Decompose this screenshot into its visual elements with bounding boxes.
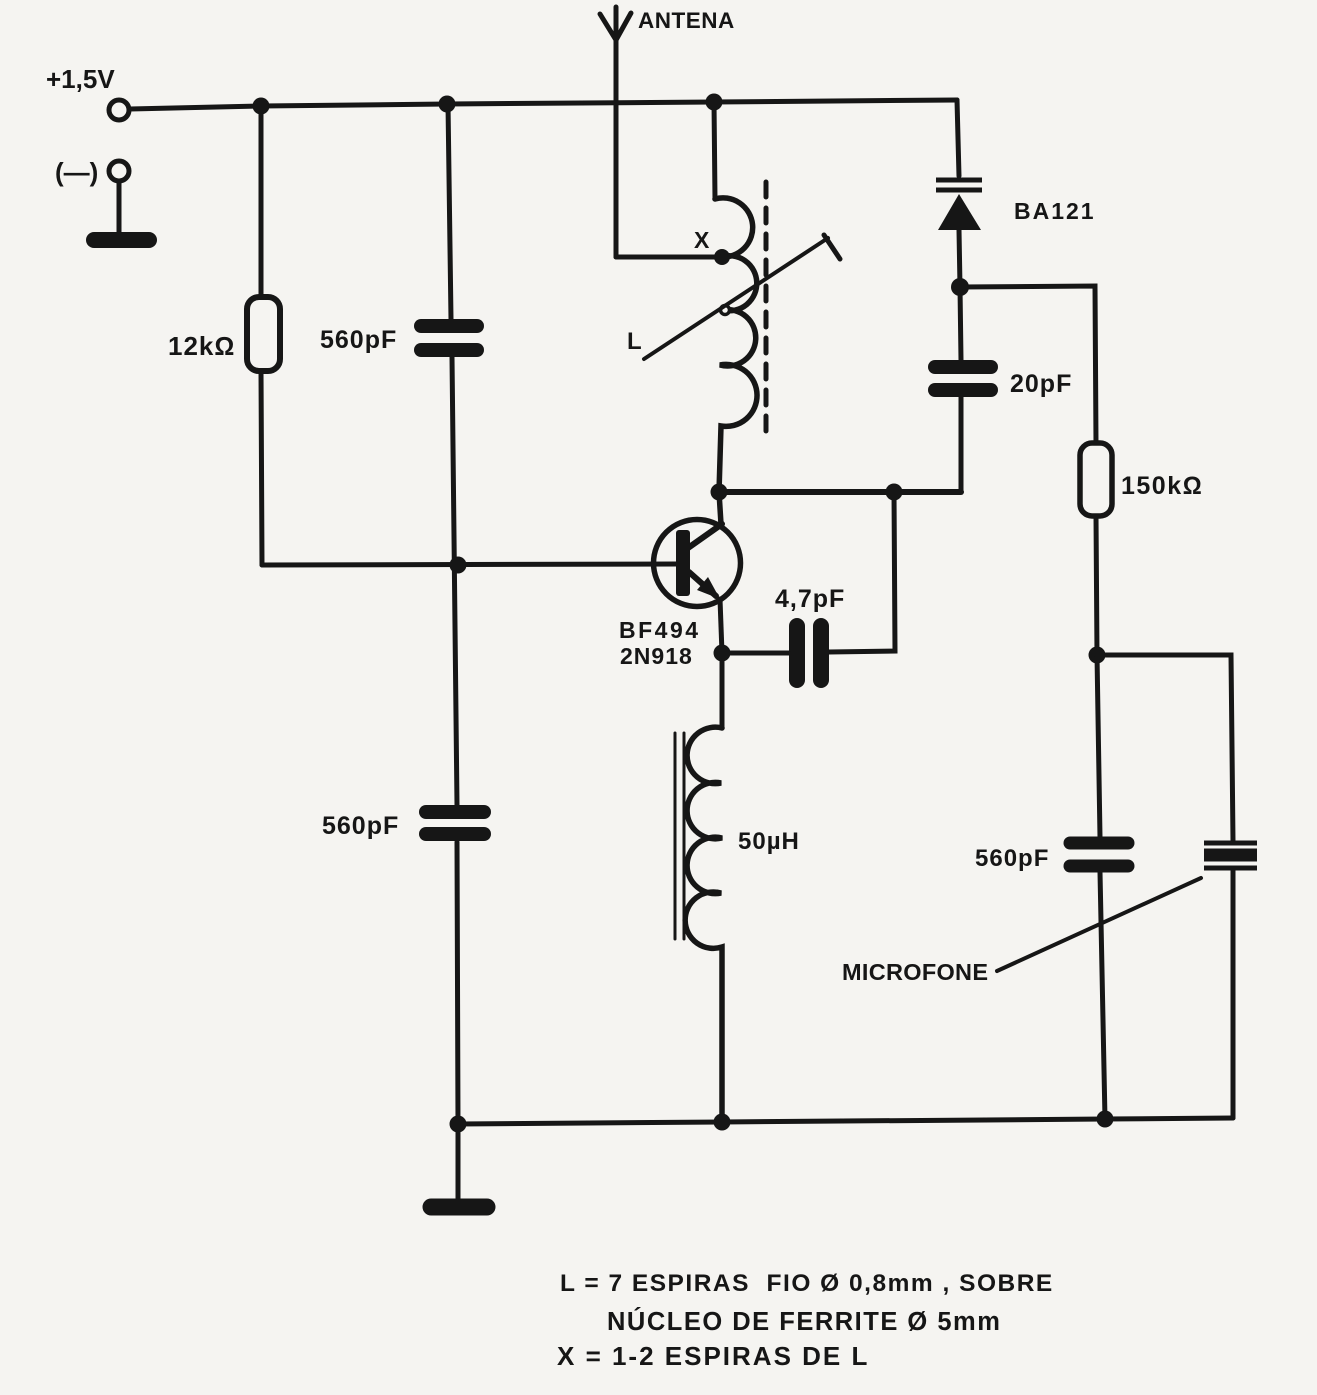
wire emitter to C4: [722, 651, 789, 656]
capacitor C3 20pF: [935, 367, 991, 390]
terminal +1,5V: [109, 100, 129, 120]
wire emitter to L2: [720, 653, 725, 728]
core dashed line: [764, 182, 769, 440]
wire node to MIC1: [1097, 655, 1233, 841]
wire (-) terminal to ground: [117, 182, 122, 236]
svg-text:12kΩ: 12kΩ: [168, 331, 235, 361]
wire ground bottom rail: [458, 1118, 1233, 1124]
transistor Q1 BF494: [654, 492, 741, 653]
resistor R1 12k: [247, 297, 280, 371]
svg-text:4,7pF: 4,7pF: [775, 585, 845, 613]
terminal (-): [109, 161, 129, 181]
wire rail to L1 top: [714, 102, 715, 199]
capacitor C1 560pF: [421, 326, 477, 350]
inductor L2 50uH: [685, 727, 722, 1122]
svg-text:560pF: 560pF: [322, 812, 399, 840]
node junction rail/R1: [253, 98, 270, 115]
wire rail to R1: [259, 106, 264, 297]
node junction rail/ground: [450, 1116, 467, 1133]
core lines L2: [675, 733, 684, 939]
microphone MIC1: [1204, 843, 1257, 868]
svg-text:L = 7 ESPIRAS FIO Ø 0,8mm , S: L = 7 ESPIRAS FIO Ø 0,8mm , SOBRE: [560, 1270, 1054, 1297]
wire D1 anode to node: [959, 230, 960, 287]
inductor L1 coil L: [715, 198, 757, 492]
capacitor C4 4,7pF: [797, 626, 821, 680]
node junction rail/L2: [714, 1114, 731, 1131]
svg-text:(—): (—): [55, 157, 98, 187]
svg-text:X: X: [694, 227, 710, 253]
wire C2 to ground rail: [457, 842, 458, 1124]
svg-text:X = 1-2 ESPIRAS DE L: X = 1-2 ESPIRAS DE L: [557, 1341, 869, 1371]
wire ground stem: [456, 1124, 461, 1200]
wire rail to C1: [448, 104, 451, 319]
node junction R2/C5/MIC1: [1089, 647, 1106, 664]
svg-text:2N918: 2N918: [620, 643, 693, 669]
svg-text:NÚCLEO DE FERRITE Ø 5mm: NÚCLEO DE FERRITE Ø 5mm: [607, 1306, 1001, 1336]
svg-text:ANTENA: ANTENA: [638, 8, 735, 33]
resistor R2 150k: [1080, 443, 1112, 516]
node junction emitter/C4/L2: [714, 645, 731, 662]
wire C4 right leg: [829, 492, 895, 652]
svg-text:560pF: 560pF: [975, 845, 1049, 872]
svg-text:20pF: 20pF: [1010, 370, 1072, 398]
svg-text:L: L: [627, 328, 642, 355]
ground: [94, 232, 149, 248]
wire MIC1 to ground rail: [1231, 870, 1236, 1118]
diode D1 BA121 varicap: [936, 180, 982, 230]
capacitor C2 560pF: [426, 812, 484, 834]
wire node to R2: [960, 286, 1096, 443]
wire +V top rail: [130, 100, 957, 109]
wire node to C5: [1097, 655, 1100, 837]
wire antenna to tap X: [616, 255, 718, 260]
wire node to C3: [960, 287, 961, 360]
wire R1 to base node: [261, 371, 262, 565]
svg-text:50µH: 50µH: [738, 828, 800, 855]
wire MICROFONE pointer: [997, 878, 1201, 971]
wire rail to D1: [957, 100, 959, 176]
svg-text:BF494: BF494: [619, 617, 701, 643]
node junction collector/L1: [711, 484, 728, 501]
ground: [431, 1199, 487, 1216]
node junction collector/C4: [886, 484, 903, 501]
svg-text:BA121: BA121: [1014, 198, 1096, 224]
wire collector rail: [719, 489, 961, 495]
node junction rail/C1: [439, 96, 456, 113]
wire C5 to ground rail: [1100, 872, 1105, 1119]
antenna: [600, 7, 631, 257]
node tap X: [714, 249, 730, 265]
svg-text:MICROFONE: MICROFONE: [842, 959, 988, 985]
arrow trimmer wiper: [644, 235, 840, 359]
capacitor C5 560pF: [1070, 843, 1128, 866]
node junction rail/C5: [1097, 1111, 1114, 1128]
svg-text:+1,5V: +1,5V: [46, 64, 115, 94]
node junction D1/C3/R2: [951, 278, 969, 296]
wire R2 to mic node: [1096, 516, 1097, 655]
wire base: [262, 564, 678, 565]
node junction rail/L1: [706, 94, 723, 111]
svg-text:560pF: 560pF: [320, 326, 397, 354]
svg-text:150kΩ: 150kΩ: [1121, 472, 1203, 500]
wire C1 to C2: [452, 357, 457, 805]
wire C3 bottom: [959, 397, 964, 492]
node L1 wiper tap: [721, 306, 730, 315]
node junction base/C1-C2: [450, 557, 467, 574]
